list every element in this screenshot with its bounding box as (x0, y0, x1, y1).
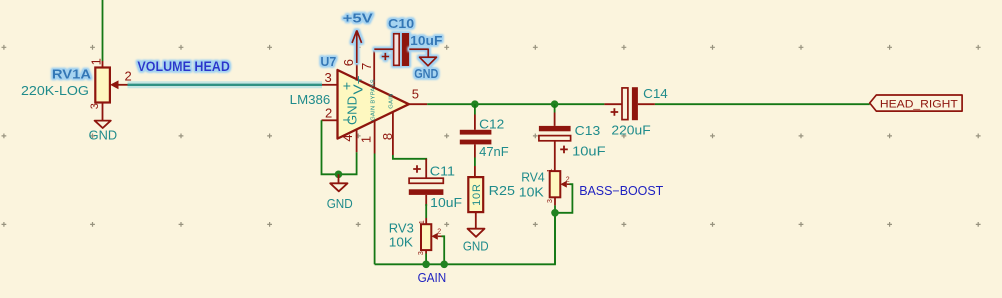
svg-text:HEAD_RIGHT: HEAD_RIGHT (880, 98, 958, 110)
svg-text:2: 2 (125, 69, 132, 84)
junction: RV3 wiper on GAIN net (440, 261, 448, 269)
junction: C13 tap (551, 100, 559, 108)
svg-text:2: 2 (325, 106, 332, 121)
wire: U7 pin 4 to ground junction (339, 152, 357, 174)
resistor R25 (468, 166, 515, 229)
+5V power symbol (highlighted) (356, 62, 358, 81)
svg-text:RV1A: RV1A (52, 67, 92, 82)
svg-text:R25: R25 (489, 184, 515, 198)
junction: ground node under U7 (335, 171, 343, 179)
junction: RV4 node (551, 209, 559, 217)
wire: U7 pin 1 down to GAIN net (374, 154, 376, 265)
wire: GAIN net bottom run (375, 213, 555, 264)
svg-text:5: 5 (412, 87, 419, 102)
svg-text:GND: GND (89, 129, 117, 143)
svg-text:BASS−BOOST: BASS−BOOST (579, 184, 663, 198)
svg-text:1: 1 (359, 136, 374, 143)
svg-text:10R: 10R (471, 183, 483, 206)
wire: RV3 wiper to GAIN net (442, 236, 445, 264)
potentiometer RV4 (547, 168, 570, 205)
wire: C12 to R25 (474, 158, 476, 167)
svg-text:8: 8 (380, 133, 395, 140)
svg-text:+5V: +5V (343, 11, 374, 26)
svg-text:6: 6 (341, 59, 356, 66)
svg-text:VOLUME HEAD: VOLUME HEAD (137, 58, 230, 74)
global label HEAD_RIGHT (870, 95, 962, 111)
svg-text:3: 3 (89, 103, 101, 109)
svg-text:C11: C11 (430, 165, 455, 179)
ground under R25 (463, 229, 489, 254)
svg-text:1: 1 (89, 58, 104, 65)
junction: C12 tap (471, 100, 479, 108)
svg-text:1: 1 (547, 168, 554, 172)
wire: RV1A wiper to U7 pin 3 (highlighted net) (128, 81, 323, 88)
ground under U7 (327, 174, 353, 211)
svg-text:GAIN: GAIN (418, 271, 447, 285)
svg-text:10uF: 10uF (430, 196, 462, 210)
wire: C11 to RV3 (425, 204, 427, 218)
svg-text:GND: GND (414, 66, 438, 81)
wire: RV4 pin3 down (554, 205, 556, 264)
capacitor C14 (604, 87, 667, 137)
svg-text:10K: 10K (519, 186, 545, 200)
wire: vertical feed into RV1A pin 1 (102, 0, 104, 61)
svg-text:2: 2 (437, 229, 441, 236)
svg-text:10uF: 10uF (410, 33, 442, 48)
svg-text:V+: V+ (351, 75, 366, 94)
wire: C14 to HEAD_RIGHT (655, 103, 870, 105)
svg-text:GAIN: GAIN (389, 93, 395, 108)
potentiometer RV3 (418, 218, 441, 255)
ground at C10 (highlighted) (409, 49, 438, 81)
wire: RV3 pin3 to GAIN net (425, 254, 427, 265)
svg-text:2: 2 (566, 177, 570, 184)
svg-text:GND: GND (345, 96, 360, 125)
wire: U7 pin 2 to ground junction (322, 120, 339, 174)
svg-text:1: 1 (419, 220, 426, 224)
op-amp U7 LM386 (322, 49, 428, 155)
svg-text:3: 3 (325, 70, 332, 85)
svg-text:U7: U7 (320, 54, 336, 69)
svg-text:RV4: RV4 (521, 171, 545, 185)
capacitor C11 (409, 159, 463, 210)
wire: U7 pin 8 to C11 (393, 155, 426, 160)
capacitor C12 (460, 104, 509, 159)
svg-text:3: 3 (547, 199, 554, 203)
svg-text:10K: 10K (389, 236, 414, 250)
svg-text:LM386: LM386 (290, 93, 331, 107)
wire: U7 pin 5 output run (427, 103, 604, 105)
svg-text:10uF: 10uF (572, 145, 606, 159)
svg-text:4: 4 (340, 134, 355, 141)
svg-text:220K-LOG: 220K-LOG (21, 84, 89, 98)
capacitor C13 (539, 104, 606, 171)
junction: RV3 pin3 on GAIN net (422, 261, 430, 269)
svg-text:GND: GND (327, 197, 353, 211)
ground under RV1A (89, 121, 117, 143)
svg-text:GND: GND (463, 239, 489, 253)
svg-text:GAIN BYPASS: GAIN BYPASS (371, 79, 377, 121)
svg-text:C14: C14 (643, 87, 668, 101)
potentiometer RV1A (89, 58, 132, 120)
capacitor C10 (highlighted) (374, 16, 442, 66)
svg-text:C10: C10 (388, 16, 414, 31)
svg-text:C13: C13 (575, 124, 601, 138)
svg-text:7: 7 (359, 63, 374, 70)
svg-text:C12: C12 (479, 117, 504, 131)
wire: RV4 wiper loop to junction (555, 184, 572, 213)
svg-text:220uF: 220uF (611, 124, 651, 138)
svg-text:47nF: 47nF (479, 145, 509, 159)
svg-text:3: 3 (418, 251, 425, 255)
svg-text:RV3: RV3 (389, 222, 414, 236)
